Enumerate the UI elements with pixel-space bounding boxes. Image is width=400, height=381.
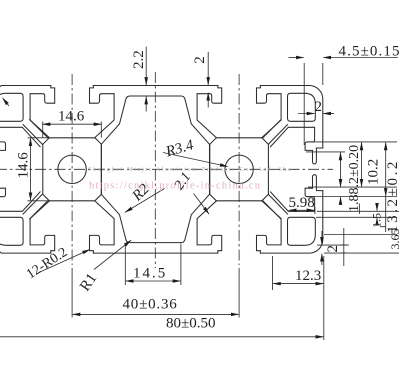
- wire: top face middle segment: [93, 85, 218, 87]
- right end group: corner chambers + webs: [263, 93, 316, 245]
- T-slot bottom-right: [197, 201, 281, 253]
- dim 8.2 line: [340, 153, 342, 187]
- dim 2 bottom right wall: ext + arrows: [341, 228, 348, 266]
- svg-text:8.2±0.20: 8.2±0.20: [347, 145, 362, 195]
- svg-text:1.5: 1.5: [370, 213, 384, 228]
- leader R1: [94, 240, 131, 269]
- svg-text:13.2±0.2: 13.2±0.2: [385, 159, 400, 233]
- dim 14.5: extension lines: [125, 244, 181, 286]
- svg-text:3.65: 3.65: [388, 229, 400, 250]
- dim 12.3: extension lines: [273, 256, 324, 290]
- centerline left cell: [71, 74, 73, 265]
- svg-text:5.98: 5.98: [289, 195, 315, 211]
- svg-text:12.3: 12.3: [295, 268, 321, 284]
- dim 80: extension line right: [323, 290, 325, 340]
- dim 13.2 line: [385, 143, 387, 196]
- svg-text:12-R0.2: 12-R0.2: [24, 245, 70, 282]
- dim 10.2 line: [361, 143, 363, 187]
- T-slot top-left: [30, 86, 114, 138]
- svg-text:40±0.36: 40±0.36: [123, 297, 178, 313]
- core square right cell: [210, 138, 269, 201]
- central chamber octagon: [101, 96, 209, 243]
- leader 2.1: [194, 194, 210, 215]
- dim 12.3 line: [273, 283, 323, 285]
- svg-text:2: 2: [325, 245, 341, 253]
- core square left cell: [43, 138, 102, 201]
- dim 4.5 : extension lines: [304, 63, 323, 145]
- centerline horizontal: [0, 168, 333, 170]
- corner chamber top-right: [288, 93, 316, 121]
- dim 14.5 line: [126, 280, 180, 282]
- svg-text:R1: R1: [77, 271, 100, 295]
- svg-text:10.2: 10.2: [366, 159, 382, 185]
- svg-text:14.5: 14.5: [133, 266, 167, 282]
- centerline middle: [154, 72, 156, 268]
- dim 1.5 line: [376, 204, 378, 211]
- dim 14.6 horizontal: extension lines: [43, 122, 102, 138]
- dimensions: [0, 47, 399, 340]
- dim 14.6 vertical: extension lines: [28, 138, 50, 201]
- dim 2 right end wall: [298, 113, 314, 115]
- centerlines: [0, 72, 333, 268]
- dim 14.6 vertical: line: [30, 138, 32, 200]
- leader 12-R0.2: [40, 250, 90, 273]
- dim 40: extension lines: [72, 268, 239, 318]
- dim 40 line: [73, 313, 239, 315]
- web top outer pair: [263, 120, 288, 145]
- hole right cell: [225, 155, 253, 183]
- leader R2: [125, 189, 164, 213]
- svg-text:80±0.50: 80±0.50: [166, 316, 215, 332]
- svg-text:1.8: 1.8: [347, 195, 362, 213]
- svg-text:2.2: 2.2: [131, 50, 147, 69]
- svg-text:4.5±0.15: 4.5±0.15: [339, 44, 400, 60]
- dim 80 line: [0, 336, 323, 338]
- right side extension lines: [306, 142, 399, 253]
- wire: bottom face middle segment: [93, 252, 218, 254]
- svg-text:R3.4: R3.4: [163, 137, 196, 160]
- leader R3.4: [163, 153, 228, 167]
- T-slot bottom-left: [30, 201, 114, 253]
- wire: top face right segment + rounded top-right corner: [260, 86, 322, 149]
- left end group (mirror of right end): [0, 93, 48, 245]
- wire: bottom face left segment: [0, 252, 51, 253]
- dim 5.98 line: [289, 209, 314, 211]
- leader arrow in left chamber: [3, 98, 9, 106]
- T-slot left end face (cropped by image edge): [0, 127, 40, 211]
- dim 1.8 line: [340, 180, 342, 187]
- dim 14.6 horizontal: line: [43, 123, 102, 125]
- hole left cell: [58, 155, 86, 183]
- svg-text:2: 2: [192, 56, 208, 64]
- wire: right face lower + rounded bottom-right corner: [260, 191, 322, 254]
- svg-text:14.6: 14.6: [58, 109, 85, 125]
- dim 4.5 : arrow segments: [289, 57, 304, 59]
- svg-text:2: 2: [315, 99, 323, 115]
- wire: top face left segment: [0, 86, 51, 87]
- T-slot top-right: [197, 86, 281, 138]
- corner chamber bottom-right: [288, 217, 316, 245]
- svg-text:14.6: 14.6: [16, 152, 32, 179]
- svg-text:Shanghai Minjie Aluminium Prod: Shanghai Minjie Aluminium Products Co., …: [88, 166, 291, 173]
- dim 2.2: lines with arrows: [145, 47, 147, 85]
- centerline right cell: [238, 74, 240, 265]
- dim 2 top: lines with arrows: [207, 52, 209, 85]
- web bottom outer pair: [263, 194, 288, 219]
- T-slot right end face: [271, 127, 323, 211]
